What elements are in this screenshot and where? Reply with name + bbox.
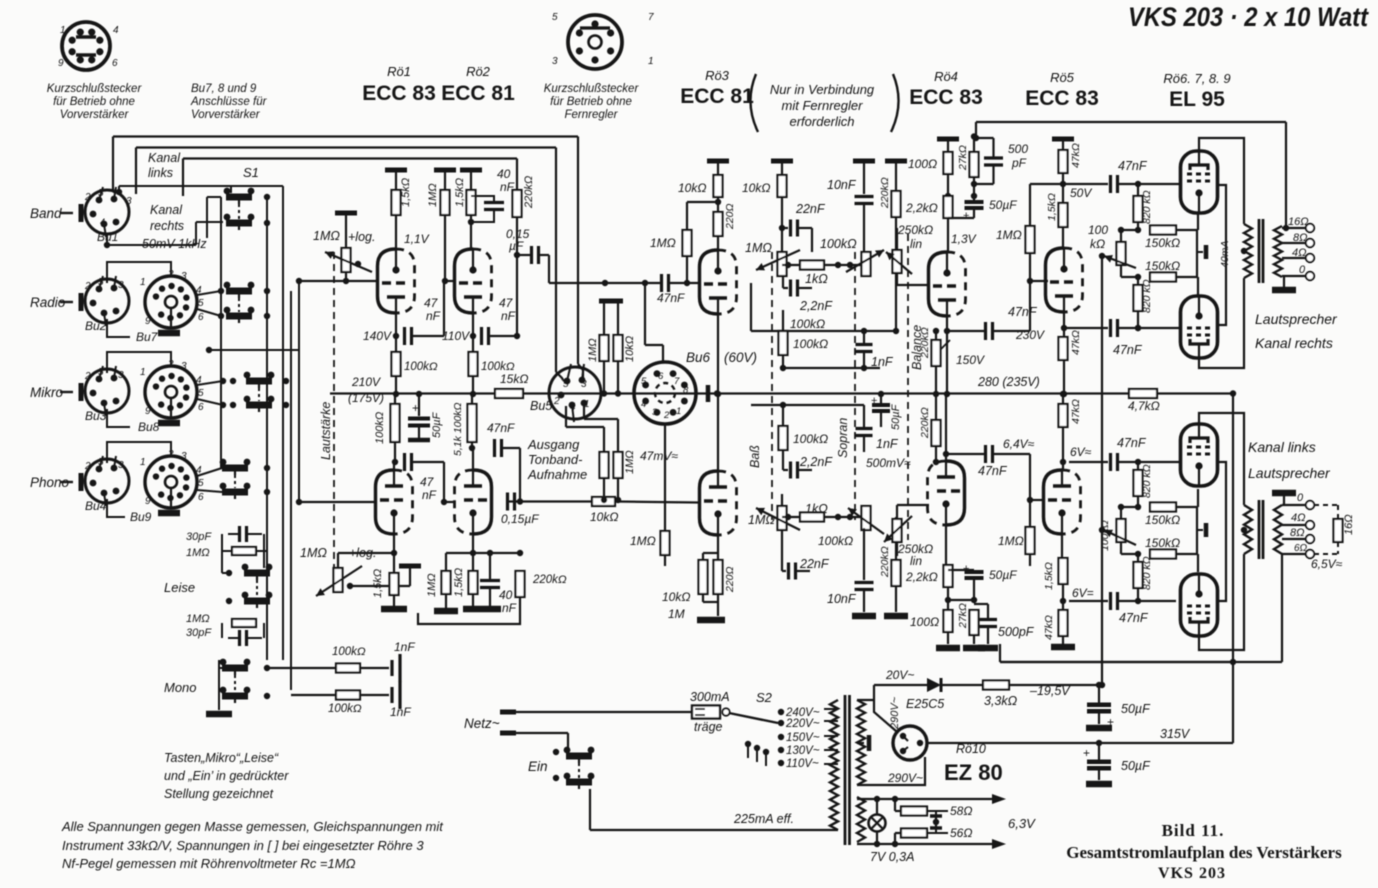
svg-text:1M: 1M	[668, 607, 685, 621]
capacitor 47nF Ro4b out	[946, 453, 984, 455]
svg-text:Ausgang: Ausgang	[527, 437, 580, 452]
svg-text:150kΩ: 150kΩ	[1145, 513, 1180, 527]
svg-text:16Ω: 16Ω	[1288, 216, 1309, 228]
svg-text:40mA: 40mA	[1219, 241, 1231, 268]
wire Ro4b top	[945, 394, 947, 461]
svg-text:5: 5	[98, 457, 104, 468]
wire EL95 no3 anode	[1199, 413, 1244, 505]
svg-text:Aufnahme: Aufnahme	[527, 467, 587, 482]
svg-text:8Ω: 8Ω	[1293, 232, 1308, 244]
svg-text:(60V): (60V)	[724, 350, 757, 365]
svg-text:Mono: Mono	[164, 680, 197, 695]
svg-text:47nF: 47nF	[487, 421, 515, 435]
svg-text:1nF: 1nF	[390, 705, 411, 719]
output transformer rechts core	[1258, 219, 1261, 283]
svg-text:7: 7	[648, 12, 654, 23]
wire HT rail B	[136, 146, 556, 148]
svg-text:1MΩ: 1MΩ	[186, 547, 210, 559]
wire EZ80 output 315V	[927, 742, 1233, 744]
svg-text:Gesamtstromlaufplan des Vers: Gesamtstromlaufplan des Verstärkers	[1066, 843, 1342, 862]
capacitor 50uF bias	[1098, 685, 1100, 703]
svg-text:1,5kΩ: 1,5kΩ	[453, 568, 465, 597]
svg-text:10kΩ: 10kΩ	[590, 510, 618, 524]
svg-text:pF: pF	[1011, 156, 1027, 170]
resistor 1M-ohm below Bu5 a	[603, 427, 605, 452]
svg-text:Lautsprecher: Lautsprecher	[1255, 311, 1338, 327]
svg-text:6: 6	[198, 492, 204, 503]
svg-text:47: 47	[420, 475, 435, 489]
capacitor 47nF links lower	[1069, 600, 1108, 602]
svg-text:22nF: 22nF	[799, 557, 830, 571]
svg-text:3: 3	[118, 280, 124, 291]
triode Ro4b	[928, 461, 965, 526]
svg-text:150V: 150V	[956, 353, 985, 367]
heater circuit	[857, 798, 902, 800]
svg-text:1MΩ: 1MΩ	[996, 228, 1022, 242]
socket Bu2	[85, 276, 129, 326]
svg-text:40: 40	[497, 167, 511, 181]
wire to Ro5a grid	[1029, 253, 1031, 331]
capacitor 2,2nF lower	[783, 469, 788, 471]
row lower tone pots	[778, 506, 787, 530]
resistor 100k-ohm 5,1k lower	[468, 404, 477, 442]
resistor 100k-ohm Ro2a	[469, 352, 478, 376]
pentode EL95 no3	[1181, 423, 1218, 487]
svg-text:+: +	[871, 395, 877, 407]
switch S1 Phono a	[220, 459, 251, 475]
svg-text:µF: µF	[509, 239, 524, 253]
bias feed -19,5V vertical	[1101, 256, 1103, 685]
svg-text:erforderlich: erforderlich	[789, 114, 854, 129]
wire Ro3b bottom	[717, 535, 719, 560]
triode Ro2a	[455, 249, 492, 314]
mains transformer secondary 290V	[857, 700, 865, 785]
svg-text:Tonband-: Tonband-	[528, 452, 583, 467]
svg-text:2,2nF: 2,2nF	[799, 455, 833, 469]
svg-text:47nF: 47nF	[1113, 343, 1143, 357]
svg-text:VKS 203: VKS 203	[1158, 865, 1226, 882]
rectifier socket EZ80	[893, 726, 927, 760]
svg-text:2: 2	[663, 410, 670, 421]
svg-text:820 kΩ: 820 kΩ	[1141, 556, 1153, 590]
capacitor 2,2nF upper	[783, 287, 788, 289]
svg-text:47nF: 47nF	[1008, 305, 1038, 319]
node S1 Band	[264, 194, 270, 200]
svg-text:6,4V≈: 6,4V≈	[1003, 437, 1035, 451]
svg-text:1: 1	[140, 277, 146, 288]
svg-text:2: 2	[84, 371, 91, 382]
dashed gang line volume	[333, 252, 335, 568]
svg-text:100kΩ: 100kΩ	[793, 337, 828, 351]
svg-text:3: 3	[652, 407, 658, 418]
svg-text:nF: nF	[502, 601, 517, 615]
svg-text:6: 6	[198, 402, 204, 413]
socket Bu7	[145, 276, 197, 328]
svg-text:3: 3	[581, 379, 587, 390]
svg-text:100kΩ: 100kΩ	[328, 703, 362, 715]
svg-text:1kΩ: 1kΩ	[805, 502, 828, 516]
svg-text:30pF: 30pF	[186, 531, 212, 543]
svg-text:Bu7, 8 und 9: Bu7, 8 und 9	[191, 83, 257, 95]
wire Ro3a cathode	[717, 314, 719, 470]
svg-text:1nF: 1nF	[394, 640, 415, 654]
mains terminals	[500, 710, 516, 715]
capacitor 10nF lower	[863, 528, 865, 580]
capacitor 50uF mid	[878, 391, 884, 397]
svg-text:Bu2: Bu2	[85, 319, 107, 333]
svg-text:5,1k 100kΩ: 5,1k 100kΩ	[452, 402, 464, 456]
svg-text:4,7kΩ: 4,7kΩ	[1128, 399, 1160, 413]
cathode bar EZ80	[857, 742, 864, 744]
svg-text:1MΩ: 1MΩ	[630, 534, 656, 548]
svg-text:3: 3	[126, 196, 132, 207]
svg-text:7V 0,3A: 7V 0,3A	[870, 850, 914, 864]
svg-text:1MΩ: 1MΩ	[650, 236, 676, 250]
svg-text:3: 3	[118, 460, 124, 471]
svg-text:Sopran: Sopran	[836, 418, 850, 458]
resistor 220-ohm Ro3b b	[714, 560, 723, 594]
fuse 300mA traege	[692, 706, 720, 719]
svg-text:2,2kΩ: 2,2kΩ	[905, 570, 938, 584]
resistor 58-ohm	[894, 799, 896, 811]
resistor 27k-ohm Ro4a	[973, 137, 975, 153]
triode Ro2b	[455, 470, 492, 535]
wire Ro5a cathode down	[1063, 312, 1065, 394]
dashed gang bass	[771, 252, 773, 520]
svg-text:1nF: 1nF	[876, 437, 899, 451]
ground 220k lower	[884, 613, 908, 620]
socket Bu6	[464, 133, 1355, 882]
svg-text:5: 5	[98, 188, 104, 199]
svg-text:1,5kΩ: 1,5kΩ	[372, 569, 384, 598]
wire lower signal line	[507, 500, 520, 502]
svg-text:10kΩ: 10kΩ	[678, 181, 706, 195]
triode Ro3a	[700, 250, 737, 315]
svg-text:1,1V: 1,1V	[404, 232, 430, 246]
svg-text:50µF: 50µF	[890, 403, 902, 430]
svg-text:2: 2	[84, 281, 91, 292]
capacitor 500pF lower	[974, 603, 988, 605]
tap 10nF treble	[853, 159, 875, 164]
capacitor 47nF Ro4a out	[947, 330, 984, 332]
ground Ro2b group	[463, 606, 501, 613]
svg-text:100Ω: 100Ω	[908, 157, 937, 171]
svg-text:Bu4: Bu4	[85, 499, 107, 513]
svg-text:5: 5	[98, 367, 104, 378]
wire screens links	[1217, 462, 1226, 601]
capacitor 40nF lower	[489, 553, 491, 579]
triode Ro1b	[376, 470, 413, 535]
resistor 220k-ohm balance upper	[885, 159, 907, 164]
svg-text:4Ω: 4Ω	[1292, 247, 1307, 259]
spare contacts	[745, 741, 751, 747]
resistor 1M-ohm Ro5a grid	[1026, 226, 1035, 253]
svg-text:1MΩ: 1MΩ	[998, 534, 1024, 548]
svg-text:4Ω: 4Ω	[1291, 512, 1306, 524]
triode Ro5a	[1046, 248, 1083, 313]
capacitor 0,15uF upper	[517, 254, 530, 256]
svg-text:100: 100	[1088, 223, 1108, 237]
resistor 100k-ohm lower left	[391, 404, 400, 442]
resistor 47k-ohm Ro5a anode	[1059, 150, 1068, 173]
capacitor 1nF row1	[390, 660, 393, 676]
svg-text:nF: nF	[501, 309, 516, 323]
socket Bu3	[85, 366, 129, 416]
svg-text:Anschlüsse für: Anschlüsse für	[190, 96, 268, 108]
svg-text:Fernregler: Fernregler	[564, 109, 618, 121]
triode Ro1a	[378, 249, 415, 314]
resistor 10k-ohm above Bu5	[617, 301, 619, 335]
svg-text:6: 6	[198, 312, 204, 323]
socket Bu5	[549, 364, 601, 422]
svg-text:280 (235V): 280 (235V)	[977, 375, 1040, 389]
svg-text:47kΩ: 47kΩ	[1070, 330, 1082, 355]
svg-text:5: 5	[198, 298, 204, 309]
svg-text:4: 4	[570, 402, 576, 413]
socket Bu9	[145, 456, 197, 508]
svg-text:ECC 83: ECC 83	[1025, 87, 1099, 110]
svg-text:4: 4	[100, 217, 105, 227]
svg-text:47kΩ: 47kΩ	[1043, 615, 1055, 640]
resistor 100k-ohm mid lower	[779, 426, 788, 450]
potentiometer bass upper	[778, 252, 787, 276]
svg-text:mit Fernregler: mit Fernregler	[782, 98, 864, 113]
svg-text:290V~: 290V~	[887, 771, 923, 785]
ground speaker links	[1283, 496, 1285, 505]
pilot lamp	[869, 815, 886, 832]
svg-text:50V: 50V	[1070, 186, 1092, 200]
svg-text:Baß: Baß	[748, 445, 762, 468]
svg-text:15kΩ: 15kΩ	[500, 372, 528, 386]
svg-text:Vorverstärker: Vorverstärker	[191, 109, 261, 121]
svg-text:100kΩ: 100kΩ	[818, 534, 853, 548]
jack plug Bu3	[79, 383, 84, 401]
dashed gang balance	[907, 234, 909, 540]
wire Mono to ground	[218, 660, 220, 710]
svg-text:820 kΩ: 820 kΩ	[1141, 279, 1153, 313]
ground 27k lower	[963, 645, 985, 652]
svg-text:220kΩ: 220kΩ	[879, 546, 891, 578]
resistor 220k-ohm Ro2 anode	[513, 190, 522, 217]
capacitor 47nF Ro2b out	[493, 439, 496, 457]
svg-text:Lautstärke: Lautstärke	[319, 402, 333, 460]
svg-text:1MΩ: 1MΩ	[313, 229, 340, 243]
capacitor 50uF main	[1098, 743, 1100, 760]
output transformer rechts primary	[1244, 224, 1252, 278]
jack plug Bu4	[79, 473, 84, 491]
wire B+ feed vertical	[1232, 394, 1234, 744]
wire Ro4b cathode chain	[945, 525, 947, 565]
resistor 220-ohm Ro3	[714, 212, 723, 236]
tap 1M-ohm Ro2 grid	[434, 168, 456, 173]
wire screens rechts	[1217, 185, 1226, 325]
capacitor 1nF mid upper	[863, 331, 865, 343]
switch S1 Band b	[224, 214, 255, 230]
resistor 1M-ohm Ro2 grid leak	[441, 190, 450, 215]
svg-text:träge: träge	[694, 720, 723, 734]
ground 10nF lower	[852, 613, 876, 620]
svg-text:40: 40	[499, 588, 513, 602]
resistor 3,3k-ohm bias	[941, 684, 983, 686]
svg-text:8: 8	[683, 385, 689, 396]
wire Bu6 top pin	[662, 345, 664, 362]
svg-text:1MΩ: 1MΩ	[748, 513, 775, 527]
wire grid Ro1a	[299, 280, 377, 282]
svg-text:ECC 83: ECC 83	[909, 86, 983, 109]
svg-text:VKS 203 · 2 x 10 Watt: VKS 203 · 2 x 10 Watt	[1128, 2, 1369, 32]
speaker taps rechts	[1282, 227, 1306, 229]
switch S1 Phono b	[220, 483, 251, 499]
wire main HT rail	[330, 392, 495, 394]
capacitor 47nF Ro1b out	[403, 453, 406, 471]
resistor 1M-ohm Ro5b grid	[1026, 527, 1035, 554]
triode Ro3b	[700, 471, 737, 536]
svg-text:nF: nF	[426, 309, 441, 323]
svg-text:1: 1	[60, 25, 66, 36]
resistor 820k-ohm rechts b	[1134, 285, 1143, 311]
svg-text:110V~: 110V~	[786, 758, 819, 770]
svg-text:47: 47	[424, 296, 439, 310]
svg-text:110V: 110V	[442, 329, 470, 343]
svg-text:Rö3: Rö3	[705, 68, 730, 83]
svg-text:0: 0	[1297, 492, 1304, 504]
svg-text:1MΩ: 1MΩ	[426, 573, 438, 597]
svg-text:100kΩ: 100kΩ	[404, 361, 438, 373]
svg-text:30pF: 30pF	[186, 627, 212, 639]
resistor 820k-ohm links b	[1134, 562, 1143, 588]
wire mid bus upper	[751, 330, 896, 332]
svg-text:0,15µF: 0,15µF	[501, 512, 539, 526]
svg-text:Band: Band	[30, 206, 62, 221]
capacitor 47nF Ro3a in	[549, 282, 660, 284]
svg-text:315V: 315V	[1160, 727, 1191, 741]
svg-text:220Ω: 220Ω	[724, 566, 736, 593]
wire below Bu5 to signal line	[603, 478, 605, 499]
svg-text:9: 9	[145, 316, 151, 327]
svg-text:300mA: 300mA	[690, 690, 730, 704]
svg-text:Kanal rechts: Kanal rechts	[1255, 335, 1333, 351]
svg-text:links: links	[148, 166, 173, 180]
svg-text:Netz~: Netz~	[464, 716, 500, 731]
svg-text:Rö2: Rö2	[466, 64, 491, 79]
svg-text:lin: lin	[910, 554, 922, 568]
svg-text:47kΩ: 47kΩ	[1070, 399, 1082, 424]
resistor 100k-ohm Ro1a	[392, 352, 401, 376]
resistor 100k-ohm mid upper	[779, 331, 788, 355]
wire Ro2b bottom	[472, 533, 474, 571]
svg-text:5: 5	[641, 376, 647, 387]
svg-text:47nF: 47nF	[1119, 611, 1149, 625]
svg-text:3,3kΩ: 3,3kΩ	[984, 694, 1018, 708]
tap 100-ohm Ro4	[937, 137, 959, 142]
svg-text:150kΩ: 150kΩ	[1145, 536, 1180, 550]
resistor 47k-ohm Ro5b lower	[1059, 610, 1068, 636]
svg-text:50µF: 50µF	[1121, 702, 1151, 716]
shorting plug socket (left)	[62, 22, 110, 70]
svg-text:und „Ein’ in gedrückter: und „Ein’ in gedrückter	[164, 769, 289, 783]
resistor 1,5k-ohm Ro2 cathode	[467, 190, 476, 215]
pentode EL95 no1	[1181, 150, 1218, 214]
output transformer rechts secondary	[1274, 226, 1282, 277]
switch S1 Radio a	[224, 282, 255, 298]
wire Ro4a out	[946, 316, 948, 394]
capacitor 47nF Ro5a out	[1063, 183, 1108, 185]
svg-text:rechts: rechts	[150, 219, 184, 233]
wire grid Ro1b	[299, 501, 375, 503]
svg-text:Mikro: Mikro	[30, 385, 63, 400]
svg-text:58Ω: 58Ω	[950, 804, 972, 818]
svg-text:1: 1	[648, 56, 654, 67]
wire Bu5 top pins	[563, 380, 567, 383]
svg-text:6: 6	[112, 58, 118, 69]
resistor 47k-ohm Ro5 mid a	[1059, 337, 1068, 360]
wire Bu8 to S1 Mikro	[197, 381, 223, 385]
resistor 4,7k-ohm rail	[1129, 389, 1157, 398]
node 820k upper rechts	[1137, 185, 1139, 196]
svg-text:22nF: 22nF	[795, 202, 826, 216]
wire EL95 no2 anode	[1199, 278, 1244, 368]
svg-text:820 kΩ: 820 kΩ	[1141, 464, 1153, 498]
svg-text:47nF: 47nF	[1117, 436, 1147, 450]
svg-text:130V~: 130V~	[786, 745, 820, 757]
svg-text:Alle Spannungen gegen Masse ge: Alle Spannungen gegen Masse gemessen, Gl…	[61, 819, 444, 834]
svg-text:3: 3	[552, 56, 558, 67]
svg-text:47kΩ: 47kΩ	[1070, 143, 1082, 168]
shorting plug socket (middle)	[568, 15, 622, 69]
svg-text:50µF: 50µF	[431, 411, 443, 438]
svg-text:47: 47	[499, 296, 514, 310]
tap 10k-ohm bass	[771, 159, 793, 164]
wire 290V to EZ80	[874, 700, 896, 731]
svg-text:kΩ: kΩ	[1090, 237, 1105, 251]
triode Ro4a	[929, 252, 966, 317]
resistor 150k-ohm rechts b	[1150, 273, 1176, 282]
switch S1 Mikro a	[244, 372, 275, 388]
svg-text:Ein: Ein	[528, 759, 548, 774]
resistor 1M-ohm below Bu5 b	[617, 419, 619, 452]
ground Bu9	[158, 510, 180, 517]
svg-text:+log.: +log.	[348, 230, 375, 244]
tap bar lower pot	[399, 564, 421, 569]
output transformer links core	[1258, 500, 1261, 559]
svg-text:Nur in Verbindung: Nur in Verbindung	[770, 82, 875, 97]
resistor 1,5k-ohm Ro1b	[390, 573, 399, 595]
svg-text:0: 0	[1299, 264, 1306, 276]
wire S1 bus verticals	[220, 197, 222, 468]
svg-text:220Ω: 220Ω	[724, 203, 736, 230]
resistor 27k-ohm Ro4b	[970, 610, 979, 635]
svg-text:Kurzschlußstecker: Kurzschlußstecker	[544, 83, 640, 95]
resistor 820k-ohm rechts a	[1134, 196, 1143, 222]
svg-text:Lautsprecher: Lautsprecher	[1248, 465, 1331, 481]
svg-text:Bu9: Bu9	[130, 510, 152, 524]
svg-text:S1: S1	[243, 165, 259, 180]
wire Bu2-Bu7 frame	[107, 262, 171, 283]
svg-text:47mV≈: 47mV≈	[640, 449, 678, 463]
svg-text:150kΩ: 150kΩ	[1145, 259, 1180, 273]
svg-text:47nF: 47nF	[978, 464, 1008, 478]
tap 1.5k-ohm Ro2	[460, 168, 482, 173]
svg-text:–19,5V: –19,5V	[1029, 684, 1071, 698]
dashed gang treble	[854, 252, 856, 520]
svg-text:3: 3	[181, 271, 187, 282]
svg-text:220kΩ: 220kΩ	[532, 574, 567, 586]
svg-text:10nF: 10nF	[827, 178, 857, 192]
triode Ro5b	[1044, 470, 1081, 535]
svg-text:50µF: 50µF	[989, 198, 1017, 212]
tap 1.5k-ohm Ro1	[385, 168, 407, 173]
svg-text:4: 4	[641, 399, 646, 410]
